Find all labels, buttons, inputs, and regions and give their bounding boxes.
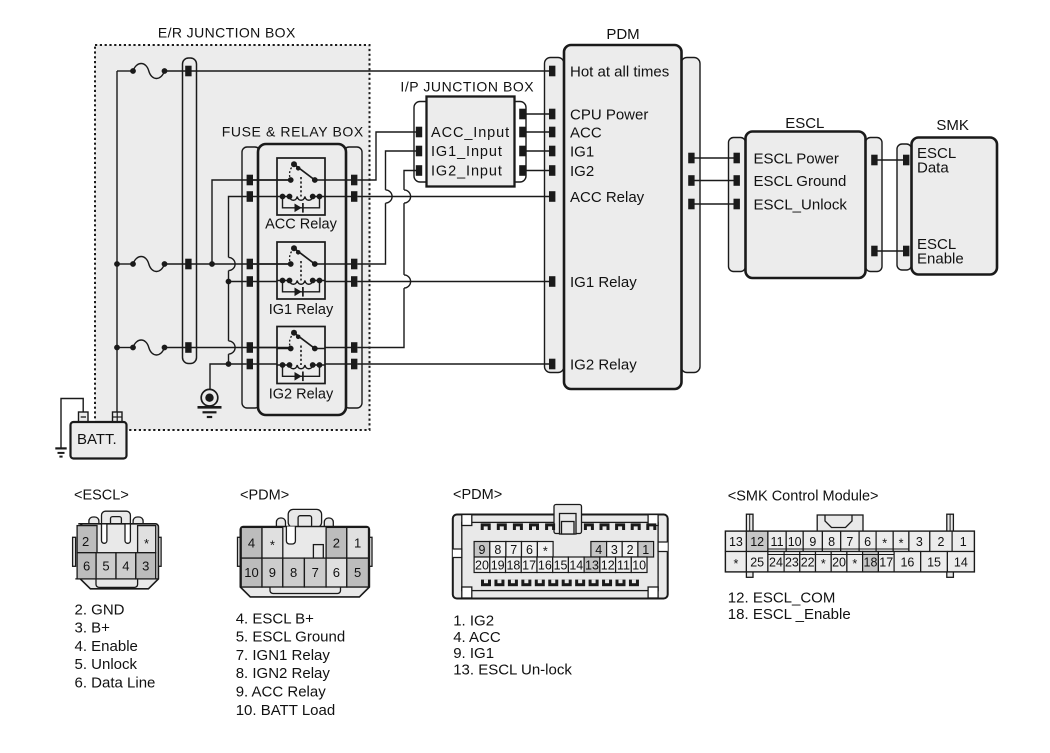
svg-text:IG2: IG2: [570, 163, 594, 180]
svg-text:<ESCL>: <ESCL>: [74, 488, 129, 504]
relay IG2 (K3) actuator link (dashed): [300, 346, 302, 366]
svg-text:4: 4: [248, 536, 255, 551]
connector PDM2 top tooth 1: [481, 523, 491, 530]
wire battery B+ vertical feed: [116, 71, 118, 412]
pin I/P out IG2: [519, 165, 525, 176]
node junction battery line row3: [114, 345, 120, 351]
svg-text:6: 6: [83, 559, 90, 574]
connector SMK cell 25 (bottom row, col 2): [746, 552, 768, 572]
connector ESCL cell 4: [116, 553, 136, 579]
relay ACC (K1) actuator link (dashed): [300, 177, 302, 197]
connector PDM2 top tooth 4: [529, 523, 539, 530]
connector ESCL pin numbers top: [82, 534, 149, 551]
connector ESCL cell 5: [96, 553, 116, 579]
relay ACC (K1) switch contact wires: [277, 179, 325, 181]
connector SMK cell 3 (top row, col 11): [909, 531, 930, 551]
svg-text:<PDM>: <PDM>: [453, 487, 502, 503]
connector PDM2 inner shroud: [462, 522, 658, 590]
svg-text:ACC_Input: ACC_Input: [431, 125, 510, 141]
connector ESCL latch: [102, 511, 131, 527]
wire row3 lead: [117, 347, 133, 349]
connector PDM1 numbers top: [248, 536, 361, 553]
fuse & relay box right connector frame: [344, 147, 362, 408]
connector PDM1 bottom tab: [270, 587, 341, 594]
pin relay frame R IG1 contact: [351, 259, 357, 270]
pin relay frame L ACC contact: [247, 175, 253, 186]
pin relay frame R ACC coil: [351, 191, 357, 202]
svg-text:16: 16: [900, 555, 914, 569]
relay ACC (K1) arm elbow dot: [296, 166, 301, 171]
svg-text:BATT.: BATT.: [77, 431, 117, 448]
connector SMK cell 10 (top row, col 4): [786, 531, 803, 551]
svg-text:*: *: [852, 557, 857, 571]
E/R junction box (dashed enclosure): [95, 45, 370, 430]
PDM right connector frame: [681, 58, 700, 373]
connector PDM2 cell 15 (bottom row): [553, 557, 569, 573]
pin ESCL Ground: [734, 175, 740, 186]
svg-text:14: 14: [569, 558, 583, 572]
pin PDM IG2: [549, 165, 555, 176]
svg-text:*: *: [270, 538, 275, 553]
svg-text:9: 9: [269, 565, 276, 580]
svg-text:3: 3: [142, 559, 149, 574]
svg-text:25: 25: [750, 555, 764, 569]
wire IG2 relay output to I/P IG2_Input (hops over IG1 coil and ACC coil wires): [358, 171, 418, 348]
svg-text:1: 1: [642, 543, 649, 557]
relay IG1 (K2) coil line: [277, 280, 325, 282]
wire IG2 relay internal leads: [253, 348, 351, 365]
connector ESCL cell 3: [136, 553, 156, 579]
pin PDM Hot at all times: [549, 66, 555, 77]
connector PDM2 bottom tooth 12: [629, 580, 639, 587]
connector PDM1 left side tab: [238, 537, 241, 566]
connector SMK left top pin: [746, 514, 753, 531]
I/P junction box connector frame: [414, 102, 526, 183]
wire ACC relay coil to PDM ACC Relay pin: [358, 196, 551, 198]
connector PDM1 cell 5: [347, 558, 369, 587]
svg-text:20: 20: [832, 555, 846, 569]
svg-text:6. Data Line: 6. Data Line: [75, 675, 156, 692]
relay IG2 (K3) arm travel (dashed arc): [290, 333, 294, 349]
fuse F1: [130, 64, 167, 79]
relay IG1 (K2) pivot dot: [291, 245, 297, 251]
connector PDM1 cell *top: [262, 527, 283, 558]
connector PDM2 cell 14 (bottom row): [568, 557, 584, 573]
connector PDM2 bottom tooth 9: [589, 580, 599, 587]
connector PDM1 numbers bottom: [244, 565, 361, 580]
relay IG1 (K2) arm elbow dot: [296, 250, 301, 255]
relay IG2 (K3) diode loop: [283, 365, 320, 376]
connector SMK cell 12 (top row, col 2): [746, 531, 768, 551]
svg-text:5. Unlock: 5. Unlock: [75, 656, 138, 673]
svg-text:Data: Data: [917, 159, 949, 176]
connector PDM2 bottom tooth 11: [616, 580, 626, 587]
svg-text:13: 13: [729, 535, 743, 549]
svg-text:16: 16: [538, 558, 552, 572]
svg-text:6: 6: [864, 535, 871, 549]
relay IG2 (K3) diode: [295, 372, 303, 382]
svg-text:4. ACC: 4. ACC: [453, 629, 501, 646]
connector SMK cell 16 (bottom row, col 11): [894, 552, 921, 572]
connector SMK numbers bottom row: [734, 555, 968, 571]
svg-text:7. IGN1 Relay: 7. IGN1 Relay: [236, 647, 331, 664]
svg-text:6: 6: [333, 565, 340, 580]
svg-text:18: 18: [506, 558, 520, 572]
pin ESCL out Data: [871, 155, 877, 166]
connector PDM1 housing: [240, 527, 369, 597]
svg-text:IG2 Relay: IG2 Relay: [570, 356, 637, 373]
svg-text:*: *: [543, 545, 548, 559]
connector PDM2 cell 12 (bottom row): [600, 557, 616, 573]
pin I/P IG2_Input: [416, 165, 422, 176]
pin I/P out CPU Power: [519, 109, 525, 120]
fuse & relay box left connector frame: [242, 147, 260, 408]
connector PDM2 bottom tooth 4: [521, 580, 531, 587]
connector PDM2 numbers top row: [478, 543, 649, 559]
connector PDM2 top tooth 2: [497, 523, 507, 530]
connector PDM2 latch inner lower: [562, 522, 575, 535]
relay IG1 (K2) switch contact wires: [277, 263, 325, 265]
connector ESCL housing: [78, 524, 158, 589]
pin relay frame R ACC contact: [351, 175, 357, 186]
connector PDM2 cell 10 (bottom row): [631, 557, 647, 573]
svg-text:ESCL_Unlock: ESCL_Unlock: [754, 196, 848, 213]
wire IG1 coil stub: [229, 281, 247, 283]
connector SMK right bottom stub: [947, 572, 954, 578]
relay ACC (K1) diode loop: [283, 197, 320, 208]
connector PDM2 bottom tooth 3: [508, 580, 518, 587]
battery negative terminal: [79, 412, 89, 422]
connector PDM1 latch inner tab: [298, 516, 312, 528]
wire IG2 relay coil to PDM IG2 Relay pin: [358, 363, 551, 365]
pin PDM out ESCL Power: [688, 153, 694, 164]
pin SMK ESCL Enable: [903, 246, 909, 257]
pin ESCL_Unlock: [734, 199, 740, 210]
connector SMK cell * (bottom row, col 6): [816, 552, 832, 572]
svg-text:8. IGN2 Relay: 8. IGN2 Relay: [236, 665, 331, 682]
svg-text:2: 2: [937, 535, 944, 549]
connector PDM2 cell 16 (bottom row): [537, 557, 553, 573]
connector ESCL pin numbers bottom: [83, 559, 149, 574]
svg-text:1: 1: [960, 535, 967, 549]
connector PDM2 bottom tooth 5: [535, 580, 545, 587]
svg-text:2. GND: 2. GND: [75, 601, 125, 618]
SMK module box: [912, 138, 998, 275]
connector PDM2 bottom tooth 8: [575, 580, 585, 587]
svg-text:1: 1: [354, 536, 361, 551]
svg-text:12: 12: [601, 558, 615, 572]
connector PDM2 cell 2 (top row): [622, 542, 638, 558]
relay IG1 (K2) coil terminal dots: [280, 278, 323, 284]
connector ESCL bottom separator: [75, 578, 158, 580]
svg-text:4. ESCL B+: 4. ESCL B+: [236, 610, 314, 627]
connector SMK cell 15 (bottom row, col 12): [921, 552, 948, 572]
pin relay frame L IG1 contact: [247, 259, 253, 270]
svg-text:IG1: IG1: [570, 143, 594, 160]
I/P junction box: [427, 97, 515, 187]
pin I/P out IG1: [519, 146, 525, 157]
connector PDM2 right clip: [658, 542, 668, 552]
connector SMK cell 8 (top row, col 6): [822, 531, 840, 551]
svg-text:<SMK Control Module>: <SMK Control Module>: [728, 489, 879, 505]
svg-text:3. B+: 3. B+: [75, 620, 111, 637]
connector PDM2 top tooth 6: [584, 523, 594, 530]
wire ACC relay coil internal leads: [253, 196, 351, 198]
svg-text:12: 12: [750, 535, 764, 549]
connector PDM2 cell 4 (top row): [591, 542, 607, 558]
connector PDM2 shroud corner tab bottom-right: [648, 587, 658, 598]
pin relay frame R IG2 coil: [351, 359, 357, 370]
svg-text:7: 7: [846, 535, 853, 549]
pin relay frame L IG1 coil: [247, 276, 253, 287]
connector PDM1 cell 9: [262, 558, 283, 587]
connector PDM1 right ear: [324, 518, 333, 527]
svg-text:13: 13: [585, 558, 599, 572]
pin relay frame R IG2 contact: [351, 342, 357, 353]
svg-text:17: 17: [879, 555, 893, 569]
connector PDM2 cell 3 (top row): [607, 542, 623, 558]
wire I/P IG2 to PDM: [525, 170, 550, 172]
svg-text:4: 4: [595, 543, 602, 557]
svg-text:7: 7: [510, 543, 517, 557]
wire IG1 relay coil to PDM IG1 Relay pin: [358, 281, 551, 283]
connector PDM2 top tooth 3: [513, 523, 523, 530]
svg-text:ESCL Ground: ESCL Ground: [754, 173, 847, 190]
connector PDM2 housing: [453, 515, 668, 599]
relay IG1 (K2) diode: [295, 287, 303, 297]
node junction battery line row2: [114, 261, 120, 267]
connector ESCL cell 6: [77, 553, 96, 579]
connector PDM1 middle notch: [313, 545, 323, 559]
connector SMK cell 18 (bottom row, col 9): [863, 552, 879, 572]
svg-text:12. ESCL_COM: 12. ESCL_COM: [728, 590, 836, 607]
relay IG1 (K2) switch arm: [294, 248, 315, 264]
svg-text:*: *: [899, 536, 904, 550]
svg-text:CPU Power: CPU Power: [570, 106, 648, 123]
connector PDM1 right side tab: [369, 537, 372, 566]
connector PDM1 cell 8: [283, 558, 305, 587]
pin PDM ACC Relay: [549, 191, 555, 202]
connector SMK cell * (bottom row, col 1): [726, 552, 747, 572]
connector SMK cell 23 (bottom row, col 4): [784, 552, 800, 572]
wire row1 to PDM Hot at all times: [165, 70, 551, 72]
connector PDM2 top tooth 7: [600, 523, 610, 530]
svg-text:ACC Relay: ACC Relay: [570, 189, 645, 206]
svg-text:8: 8: [290, 565, 297, 580]
svg-text:18: 18: [864, 555, 878, 569]
PDM left connector frame: [545, 58, 565, 373]
wire coil ground bus (riser B) with hops over row2 and row3: [229, 197, 247, 365]
svg-text:2: 2: [82, 534, 89, 549]
connector SMK cell 17 (bottom row, col 10): [878, 552, 894, 572]
svg-text:ACC Relay: ACC Relay: [265, 216, 337, 232]
PDM module box: [564, 45, 682, 389]
relay ACC (K1) box: [277, 158, 325, 215]
svg-text:14: 14: [954, 555, 968, 569]
svg-text:22: 22: [801, 555, 815, 569]
svg-text:ESCL: ESCL: [785, 115, 824, 132]
wire I/P ACC to PDM: [525, 131, 550, 133]
relay IG1 (K2) diode loop: [283, 281, 320, 292]
pin relay frame R IG1 coil: [351, 276, 357, 287]
pin PDM ACC: [549, 127, 555, 138]
fuse & relay box: [258, 144, 346, 415]
svg-text:9. ACC Relay: 9. ACC Relay: [236, 684, 327, 701]
connector PDM2 cell 20 (bottom row): [474, 557, 490, 573]
pin PDM out ESCL_Unlock: [688, 199, 694, 210]
svg-text:E/R JUNCTION BOX: E/R JUNCTION BOX: [158, 25, 296, 41]
relay IG2 (K3) box: [277, 327, 325, 384]
svg-text:24: 24: [769, 555, 783, 569]
svg-text:*: *: [882, 536, 887, 550]
relay ACC (K1) coil winding: [290, 197, 313, 201]
connector PDM1 cell 6: [326, 558, 347, 587]
pin PDM IG2 Relay: [549, 359, 555, 370]
connector PDM2 cell * (top row): [537, 542, 553, 558]
connector ESCL left side tab: [73, 537, 76, 566]
wire IG1 relay output to I/P IG1_Input (hop over ACC coil wire): [358, 151, 418, 264]
relay IG2 (K3) arm elbow dot: [296, 335, 301, 340]
connector SMK cell 9 (top row, col 5): [803, 531, 822, 551]
svg-text:I/P JUNCTION BOX: I/P JUNCTION BOX: [400, 79, 534, 95]
connector PDM1 bottom separator: [240, 586, 369, 588]
svg-text:5: 5: [102, 559, 109, 574]
wire ACC relay output to I/P ACC_Input: [358, 132, 418, 180]
relay ACC (K1) switch arm: [294, 164, 315, 180]
connector SMK cell 13 (top row, col 1): [726, 531, 747, 551]
connector PDM2 top tooth 8: [615, 523, 625, 530]
connector SMK left bottom stub: [746, 572, 753, 578]
wire I/P CPU Power to PDM: [525, 113, 550, 115]
wire ACC relay upper internal leads: [253, 179, 351, 181]
svg-text:2: 2: [333, 536, 340, 551]
connector PDM2 top tooth 9: [631, 523, 641, 530]
relay IG2 (K3) pivot dot: [291, 330, 297, 336]
svg-text:18. ESCL _Enable: 18. ESCL _Enable: [728, 606, 851, 623]
svg-text:ESCL Power: ESCL Power: [754, 150, 839, 167]
pin relay frame L IG2 contact: [247, 342, 253, 353]
connector PDM2 bottom tooth 7: [562, 580, 572, 587]
connector SMK cell 7 (top row, col 7): [841, 531, 859, 551]
svg-text:15: 15: [927, 555, 941, 569]
connector PDM1 cell 4: [241, 527, 262, 558]
fuse F3: [130, 340, 167, 355]
svg-text:3: 3: [916, 535, 923, 549]
svg-text:Enable: Enable: [917, 250, 964, 267]
pin I/P ACC_Input: [416, 127, 422, 138]
svg-text:3: 3: [611, 543, 618, 557]
connector PDM2 left clip: [453, 549, 462, 558]
pin I/P IG1_Input: [416, 146, 422, 157]
relay ACC (K1) pivot dot: [291, 161, 297, 167]
connector ESCL left ear: [89, 517, 99, 527]
connector ESCL right side tab: [158, 537, 161, 566]
wire PDM to ESCL Power: [691, 158, 737, 204]
svg-text:IG2 Relay: IG2 Relay: [269, 387, 334, 403]
wire riser A: row2 to ACC relay contact: [212, 180, 291, 264]
relay IG1 (K2) arm travel (dashed arc): [290, 248, 294, 264]
node junction row2 riser: [209, 261, 215, 267]
svg-text:5. ESCL Ground: 5. ESCL Ground: [236, 629, 346, 646]
svg-text:1. IG2: 1. IG2: [453, 613, 494, 630]
relay ACC (K1) coil terminal dots: [280, 194, 323, 200]
svg-text:*: *: [734, 557, 739, 571]
svg-text:10: 10: [788, 535, 802, 549]
connector SMK cell 22 (bottom row, col 5): [800, 552, 816, 572]
svg-text:10: 10: [244, 565, 258, 580]
connector SMK cell * (top row, col 10): [893, 531, 909, 551]
connector PDM2 cell 13 (bottom row): [584, 557, 600, 573]
relay IG1 (K2) actuator link (dashed): [300, 261, 302, 281]
connector SMK numbers top row: [729, 535, 967, 551]
connector PDM1 cell 2: [326, 527, 347, 558]
connector PDM2 numbers bottom row: [475, 558, 646, 572]
connector SMK cell 14 (bottom row, col 13): [947, 552, 974, 572]
fuse F2: [130, 257, 167, 272]
relay IG2 (K3) coil terminal dots: [280, 362, 323, 368]
relay ACC (K1) arm travel (dashed arc): [290, 164, 294, 180]
svg-text:10. BATT Load: 10. BATT Load: [236, 702, 336, 719]
relay IG2 (K3) contact dots: [288, 346, 318, 352]
relay IG1 (K2) box: [277, 242, 325, 299]
connector PDM2 latch inner: [560, 514, 577, 535]
wire ESCL to SMK data: [874, 160, 906, 251]
pin PDM out ESCL Ground: [688, 175, 694, 186]
pin I/P out ACC: [519, 127, 525, 138]
relay IG2 (K3) switch arm: [294, 333, 315, 349]
relay IG1 (K2) coil winding: [290, 281, 313, 285]
pin SMK ESCL Data: [903, 155, 909, 166]
pin PDM IG1: [549, 146, 555, 157]
connector SMK cell * (bottom row, col 8): [847, 552, 863, 572]
svg-text:*: *: [144, 536, 149, 551]
connector SMK right top pin: [947, 514, 954, 531]
svg-text:20: 20: [475, 558, 489, 572]
svg-text:IG1 Relay: IG1 Relay: [269, 302, 334, 318]
pin ESCL Power: [734, 153, 740, 164]
svg-text:4. Enable: 4. Enable: [75, 638, 138, 655]
svg-text:13. ESCL Un-lock: 13. ESCL Un-lock: [453, 661, 572, 678]
relay ACC (K1) contact dots: [288, 177, 318, 183]
pin relay frame L ACC coil: [247, 191, 253, 202]
connector PDM2 cell 7 (top row): [506, 542, 522, 558]
connector SMK body: [726, 531, 975, 572]
node junction IG1 coil: [226, 279, 232, 285]
connector PDM1 middle slot: [286, 527, 295, 545]
connector PDM2 cell 8 (top row): [490, 542, 506, 558]
SMK left connector frame: [897, 144, 912, 270]
wire row2 lead: [117, 263, 133, 265]
connector PDM2 shroud corner tab top-right: [648, 515, 658, 526]
svg-text:IG2_Input: IG2_Input: [431, 164, 503, 180]
svg-text:9. IG1: 9. IG1: [453, 645, 494, 662]
pin PDM IG1 Relay: [549, 276, 555, 287]
chassis ground (body earth ring): [198, 389, 222, 417]
connector PDM2 bottom tooth 2: [494, 580, 504, 587]
svg-text:8: 8: [494, 543, 501, 557]
connector SMK cell 1 (top row, col 13): [952, 531, 974, 551]
wire row3 to IG2 relay contact: [165, 347, 291, 349]
svg-text:23: 23: [785, 555, 799, 569]
svg-text:4: 4: [122, 559, 129, 574]
relay ACC (K1) coil line: [277, 196, 325, 198]
svg-text:FUSE & RELAY BOX: FUSE & RELAY BOX: [222, 124, 364, 140]
connector PDM2 top tooth 10: [646, 523, 656, 530]
connector PDM2 bottom tooth 6: [548, 580, 558, 587]
svg-text:SMK: SMK: [936, 117, 969, 134]
connector SMK cell * (top row, col 9): [876, 531, 893, 551]
connector SMK cell 2 (top row, col 12): [930, 531, 952, 551]
